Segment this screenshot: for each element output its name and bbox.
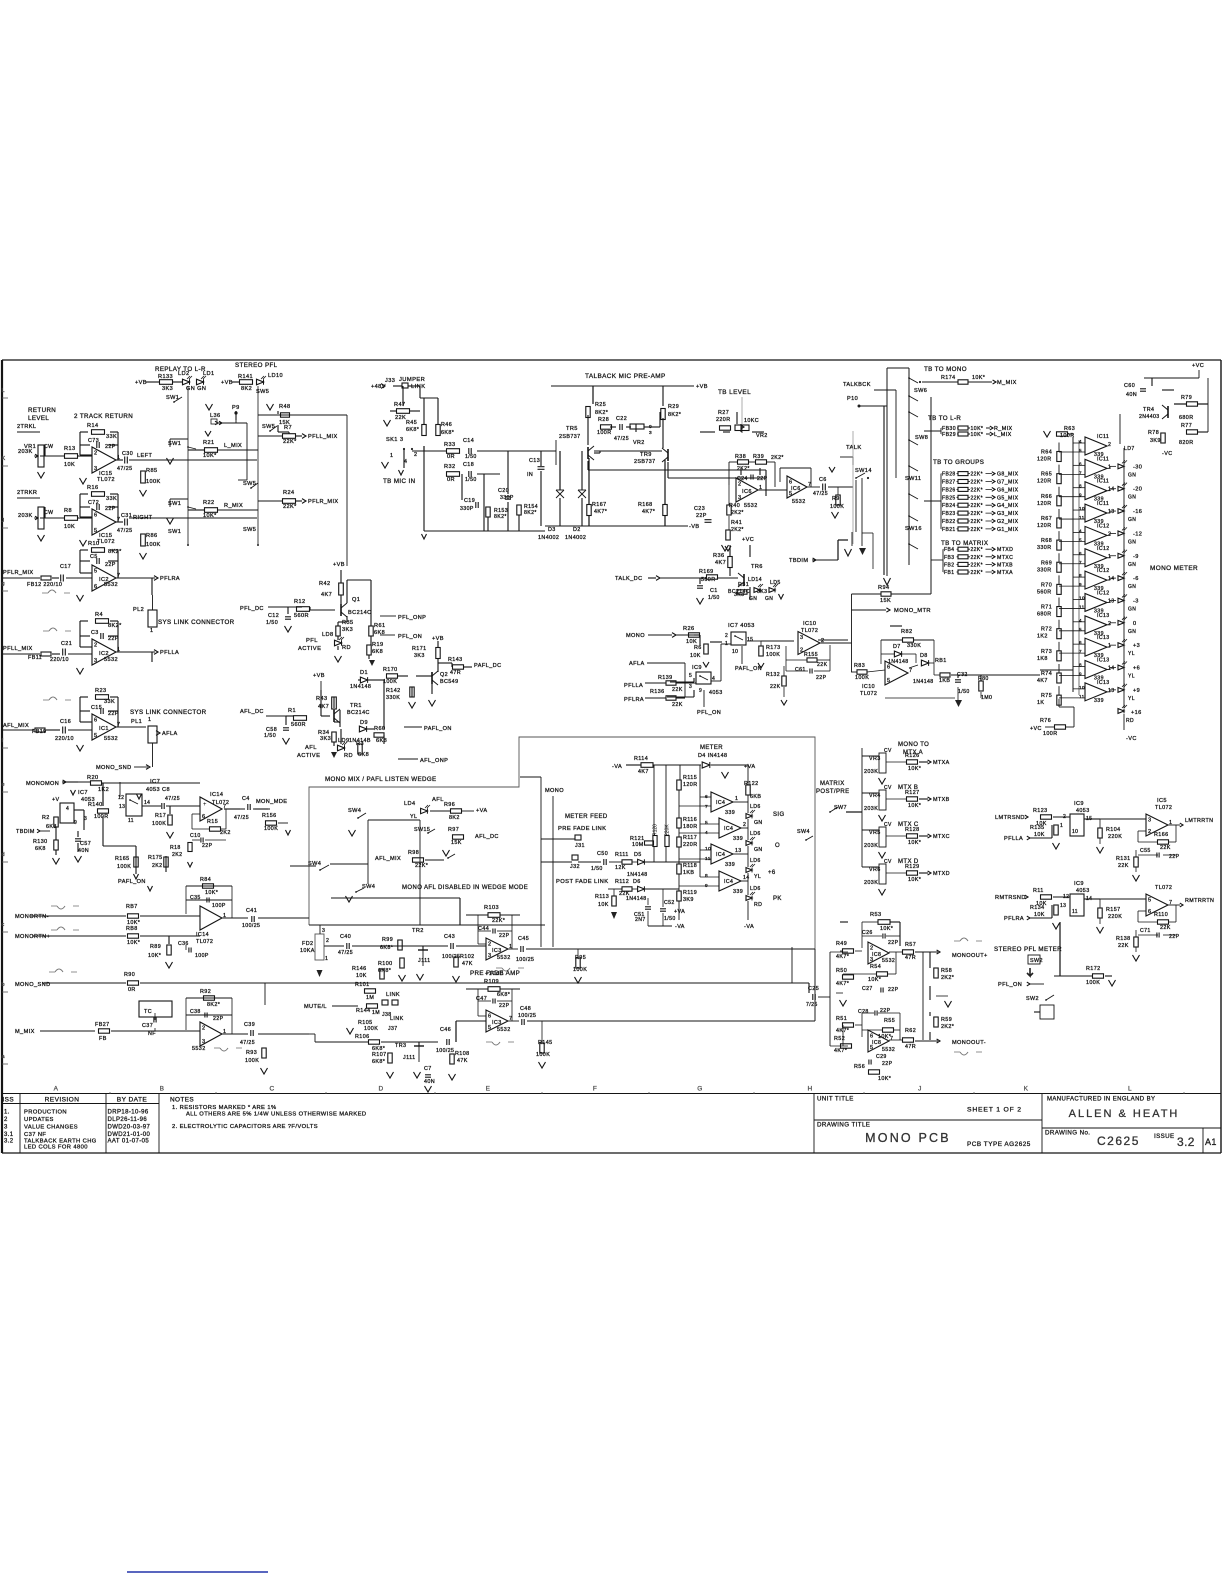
svg-text:R6: R6 bbox=[694, 645, 702, 651]
svg-text:100K: 100K bbox=[117, 864, 131, 870]
svg-text:40N: 40N bbox=[1126, 392, 1137, 398]
svg-text:2K2: 2K2 bbox=[152, 863, 162, 869]
svg-text:+VC: +VC bbox=[1030, 726, 1042, 732]
svg-text:R103: R103 bbox=[484, 905, 499, 911]
svg-text:8K2*: 8K2* bbox=[595, 410, 609, 416]
svg-text:C26: C26 bbox=[862, 930, 873, 936]
svg-text:D7: D7 bbox=[893, 644, 901, 650]
svg-text:R172: R172 bbox=[1086, 966, 1101, 972]
svg-text:R85: R85 bbox=[146, 468, 157, 474]
svg-text:2: 2 bbox=[94, 643, 97, 649]
svg-text:22K*: 22K* bbox=[971, 527, 983, 533]
svg-text:2: 2 bbox=[738, 482, 741, 488]
svg-text:MONO: MONO bbox=[626, 633, 645, 639]
svg-text:120R: 120R bbox=[1037, 479, 1052, 485]
svg-text:MONO AFL DISABLED IN WEDGE MOD: MONO AFL DISABLED IN WEDGE MODE bbox=[402, 885, 528, 891]
svg-text:R138: R138 bbox=[1116, 936, 1131, 942]
svg-text:IC12: IC12 bbox=[1097, 523, 1110, 529]
svg-text:5: 5 bbox=[94, 733, 97, 739]
svg-text:C37 NF: C37 NF bbox=[24, 1132, 46, 1138]
svg-text:13: 13 bbox=[1060, 903, 1066, 909]
svg-text:15K: 15K bbox=[451, 840, 462, 846]
svg-text:C60: C60 bbox=[1124, 383, 1135, 389]
svg-text:M_MIX: M_MIX bbox=[997, 380, 1017, 386]
svg-text:R174: R174 bbox=[941, 375, 956, 381]
svg-text:R36: R36 bbox=[713, 553, 724, 559]
svg-text:F: F bbox=[593, 1086, 597, 1093]
svg-text:22K: 22K bbox=[395, 415, 406, 421]
svg-text:1/50: 1/50 bbox=[958, 689, 970, 695]
svg-text:47R: 47R bbox=[905, 955, 916, 961]
svg-text:47/25: 47/25 bbox=[338, 950, 353, 956]
svg-text:6KB: 6KB bbox=[750, 794, 761, 800]
svg-text:10K*: 10K* bbox=[908, 803, 922, 809]
svg-text:R38: R38 bbox=[735, 454, 746, 460]
svg-text:C12: C12 bbox=[268, 613, 279, 619]
svg-text:13: 13 bbox=[1108, 688, 1115, 694]
svg-text:10M: 10M bbox=[632, 842, 644, 848]
svg-text:R104: R104 bbox=[1106, 827, 1121, 833]
svg-text:100K: 100K bbox=[1086, 980, 1100, 986]
svg-text:6K8: 6K8 bbox=[35, 846, 46, 852]
svg-text:R8: R8 bbox=[64, 508, 72, 514]
svg-text:R166: R166 bbox=[1154, 832, 1169, 838]
svg-text:ISS: ISS bbox=[3, 1097, 15, 1104]
svg-text:6K8: 6K8 bbox=[358, 752, 369, 758]
svg-text:C13: C13 bbox=[529, 458, 540, 464]
svg-text:R173: R173 bbox=[766, 645, 781, 651]
svg-text:RETURN: RETURN bbox=[28, 407, 56, 414]
svg-text:R157: R157 bbox=[1106, 907, 1121, 913]
svg-text:4K7: 4K7 bbox=[638, 769, 649, 775]
svg-text:FB24: FB24 bbox=[942, 503, 956, 509]
svg-text:MTXA: MTXA bbox=[997, 570, 1013, 576]
svg-text:1: 1 bbox=[735, 796, 738, 802]
svg-text:10: 10 bbox=[732, 649, 738, 655]
svg-text:22P: 22P bbox=[696, 513, 707, 519]
svg-text:FD2: FD2 bbox=[302, 941, 313, 947]
svg-text:C6: C6 bbox=[819, 477, 827, 483]
svg-text:L: L bbox=[1128, 1086, 1132, 1093]
svg-text:AFL: AFL bbox=[432, 797, 444, 803]
svg-text:2: 2 bbox=[870, 946, 873, 952]
svg-text:R139: R139 bbox=[658, 675, 673, 681]
svg-text:GN: GN bbox=[1128, 562, 1136, 568]
svg-text:R92: R92 bbox=[200, 989, 211, 995]
svg-text:+6: +6 bbox=[1133, 666, 1140, 672]
svg-text:G1_MIX: G1_MIX bbox=[997, 527, 1019, 533]
svg-text:13: 13 bbox=[1108, 598, 1115, 604]
svg-text:J111: J111 bbox=[403, 1055, 416, 1061]
svg-text:22K: 22K bbox=[1118, 943, 1129, 949]
svg-text:STEREO PFL METER: STEREO PFL METER bbox=[994, 946, 1062, 953]
svg-text:Q1: Q1 bbox=[352, 597, 360, 603]
svg-text:4: 4 bbox=[66, 806, 69, 812]
svg-text:22P: 22P bbox=[499, 1003, 510, 1009]
svg-text:IC7: IC7 bbox=[78, 790, 88, 796]
svg-text:G6_MIX: G6_MIX bbox=[997, 487, 1019, 493]
svg-text:2TRKR: 2TRKR bbox=[17, 490, 37, 496]
svg-text:5532: 5532 bbox=[792, 499, 806, 505]
svg-text:10K: 10K bbox=[598, 902, 609, 908]
svg-text:LD6: LD6 bbox=[750, 804, 761, 810]
svg-text:FB22: FB22 bbox=[942, 519, 956, 525]
svg-text:12K: 12K bbox=[615, 865, 626, 871]
svg-text:22P: 22P bbox=[499, 933, 510, 939]
svg-text:1M: 1M bbox=[372, 1010, 380, 1016]
svg-text:K: K bbox=[1024, 1086, 1029, 1093]
svg-text:1.: 1. bbox=[4, 1110, 10, 1116]
svg-text:3K3: 3K3 bbox=[320, 736, 331, 742]
svg-text:22K*: 22K* bbox=[971, 480, 983, 486]
svg-text:TB TO GROUPS: TB TO GROUPS bbox=[933, 459, 984, 466]
svg-text:+6: +6 bbox=[768, 870, 776, 876]
svg-text:3K9: 3K9 bbox=[683, 897, 694, 903]
svg-text:560R: 560R bbox=[291, 722, 306, 728]
svg-text:R52: R52 bbox=[834, 1036, 845, 1042]
svg-text:3: 3 bbox=[94, 466, 97, 472]
svg-text:15: 15 bbox=[747, 637, 753, 643]
svg-text:22K: 22K bbox=[672, 687, 683, 693]
svg-text:R167: R167 bbox=[592, 502, 607, 508]
svg-text:PAFL_DC: PAFL_DC bbox=[474, 663, 502, 669]
svg-text:6: 6 bbox=[870, 1034, 873, 1040]
svg-text:MTXD: MTXD bbox=[997, 547, 1013, 553]
svg-text:R27: R27 bbox=[718, 410, 729, 416]
svg-text:3.2: 3.2 bbox=[1177, 1135, 1195, 1149]
svg-text:GN: GN bbox=[1128, 539, 1136, 545]
svg-text:LED COLS FOR 4800: LED COLS FOR 4800 bbox=[24, 1145, 88, 1151]
svg-text:203K: 203K bbox=[18, 513, 33, 519]
svg-text:R146: R146 bbox=[352, 966, 367, 972]
svg-text:R74: R74 bbox=[1041, 671, 1052, 677]
svg-text:5532: 5532 bbox=[104, 736, 118, 742]
svg-text:1M: 1M bbox=[366, 995, 374, 1001]
svg-text:PFLLA: PFLLA bbox=[624, 683, 643, 689]
svg-text:R75: R75 bbox=[1041, 693, 1052, 699]
svg-text:3: 3 bbox=[202, 1039, 205, 1045]
svg-text:22K: 22K bbox=[817, 662, 828, 668]
svg-text:A1: A1 bbox=[1205, 1137, 1217, 1147]
svg-text:b: b bbox=[2, 982, 5, 988]
svg-text:220K: 220K bbox=[1108, 914, 1122, 920]
svg-text:AFL_ONP: AFL_ONP bbox=[420, 758, 448, 764]
svg-text:R41: R41 bbox=[731, 520, 742, 526]
svg-text:R143: R143 bbox=[448, 657, 463, 663]
svg-text:SW14: SW14 bbox=[855, 468, 872, 474]
svg-text:R35: R35 bbox=[342, 620, 353, 626]
svg-text:VR2: VR2 bbox=[633, 440, 645, 446]
svg-text:IC14: IC14 bbox=[196, 932, 209, 938]
svg-text:DRAWING TITLE: DRAWING TITLE bbox=[817, 1122, 870, 1129]
svg-text:1/50: 1/50 bbox=[708, 595, 720, 601]
svg-text:IC11: IC11 bbox=[1097, 479, 1109, 485]
svg-text:C57: C57 bbox=[80, 841, 91, 847]
svg-text:9: 9 bbox=[699, 688, 702, 694]
svg-text:-12: -12 bbox=[1133, 531, 1142, 537]
svg-text:3: 3 bbox=[488, 953, 491, 959]
svg-text:+VB: +VB bbox=[696, 384, 708, 390]
svg-text:6: 6 bbox=[94, 584, 97, 590]
svg-text:C46: C46 bbox=[440, 1027, 451, 1033]
svg-text:RD: RD bbox=[754, 902, 762, 908]
svg-text:DRP18-10-96: DRP18-10-96 bbox=[108, 1110, 149, 1116]
svg-text:2: 2 bbox=[800, 648, 803, 654]
svg-text:220R: 220R bbox=[683, 842, 698, 848]
svg-text:LD8: LD8 bbox=[322, 632, 333, 638]
svg-text:2: 2 bbox=[202, 1026, 205, 1032]
svg-text:O: O bbox=[775, 843, 780, 849]
svg-text:IC12: IC12 bbox=[1097, 590, 1110, 596]
svg-text:YL: YL bbox=[754, 874, 761, 880]
svg-text:R25: R25 bbox=[595, 402, 606, 408]
svg-text:SK1: SK1 bbox=[386, 437, 398, 443]
svg-text:R71: R71 bbox=[1041, 605, 1052, 611]
svg-text:G: G bbox=[697, 1086, 702, 1093]
svg-text:R69: R69 bbox=[1041, 560, 1052, 566]
svg-text:3: 3 bbox=[738, 495, 741, 501]
svg-text:6: 6 bbox=[202, 814, 205, 820]
svg-text:RD: RD bbox=[344, 753, 353, 759]
svg-text:1/50: 1/50 bbox=[264, 733, 276, 739]
svg-text:14: 14 bbox=[1108, 666, 1115, 672]
svg-text:LD6: LD6 bbox=[750, 831, 761, 837]
svg-text:FB4: FB4 bbox=[944, 547, 954, 553]
svg-text:IC9: IC9 bbox=[1074, 801, 1084, 807]
svg-text:1/50: 1/50 bbox=[465, 477, 477, 483]
svg-text:SW2: SW2 bbox=[1026, 996, 1039, 1002]
svg-text:C: C bbox=[269, 1086, 274, 1093]
svg-text:PFLR_MIX: PFLR_MIX bbox=[3, 570, 34, 576]
svg-text:10K: 10K bbox=[64, 524, 75, 530]
svg-text:6K8: 6K8 bbox=[46, 824, 57, 830]
svg-text:3: 3 bbox=[4, 1125, 8, 1131]
svg-text:22K: 22K bbox=[672, 702, 683, 708]
svg-text:R93: R93 bbox=[246, 1050, 257, 1056]
svg-text:TL072: TL072 bbox=[860, 691, 877, 697]
svg-text:40N: 40N bbox=[424, 1079, 435, 1085]
svg-text:MON_MDE: MON_MDE bbox=[256, 799, 287, 805]
svg-text:FB12 220/10: FB12 220/10 bbox=[27, 582, 62, 588]
svg-text:6K8*: 6K8* bbox=[380, 945, 394, 951]
svg-text:D: D bbox=[378, 1086, 383, 1093]
svg-text:SW4: SW4 bbox=[797, 829, 810, 835]
svg-text:TR2: TR2 bbox=[412, 928, 424, 934]
svg-text:SYS LINK CONNECTOR: SYS LINK CONNECTOR bbox=[158, 619, 235, 626]
svg-text:2: 2 bbox=[743, 822, 746, 828]
svg-text:R89: R89 bbox=[150, 944, 161, 950]
svg-text:e: e bbox=[2, 782, 5, 788]
svg-text:3K9: 3K9 bbox=[1150, 438, 1161, 444]
svg-text:R141: R141 bbox=[238, 374, 253, 380]
svg-text:RD: RD bbox=[342, 645, 351, 651]
svg-text:10K*: 10K* bbox=[203, 513, 217, 519]
svg-text:5532: 5532 bbox=[497, 955, 511, 961]
svg-text:C22: C22 bbox=[616, 416, 627, 422]
svg-text:C52: C52 bbox=[664, 900, 675, 906]
svg-text:100K: 100K bbox=[766, 652, 780, 658]
svg-text:R10: R10 bbox=[88, 541, 99, 547]
svg-text:2K2*: 2K2* bbox=[731, 510, 744, 516]
svg-text:R56: R56 bbox=[854, 1064, 865, 1070]
svg-text:R165: R165 bbox=[115, 856, 130, 862]
svg-text:R129: R129 bbox=[905, 864, 920, 870]
svg-text:H: H bbox=[807, 1086, 812, 1093]
svg-text:47/25: 47/25 bbox=[240, 1040, 255, 1046]
svg-text:L: L bbox=[2, 388, 5, 394]
svg-text:4K7: 4K7 bbox=[1037, 678, 1048, 684]
svg-text:MONO MIX / PAFL LISTEN WEDGE: MONO MIX / PAFL LISTEN WEDGE bbox=[325, 776, 437, 783]
svg-text:C7: C7 bbox=[424, 1066, 432, 1072]
svg-text:FB23: FB23 bbox=[942, 511, 956, 517]
svg-text:33K: 33K bbox=[104, 699, 115, 705]
svg-text:C48: C48 bbox=[520, 1006, 531, 1012]
svg-text:D6: D6 bbox=[633, 879, 641, 885]
svg-text:10K*: 10K* bbox=[127, 940, 141, 946]
svg-text:a: a bbox=[2, 1054, 6, 1060]
svg-text:M_MIX: M_MIX bbox=[15, 1029, 35, 1035]
svg-text:220/10: 220/10 bbox=[55, 736, 74, 742]
svg-text:C4: C4 bbox=[242, 796, 250, 802]
svg-text:+VA: +VA bbox=[476, 808, 488, 814]
svg-text:PFLL_MIX: PFLL_MIX bbox=[3, 646, 33, 652]
svg-text:R120: R120 bbox=[653, 824, 659, 836]
svg-text:R169: R169 bbox=[699, 569, 714, 575]
svg-text:5532: 5532 bbox=[192, 1046, 206, 1052]
svg-text:1: 1 bbox=[148, 717, 151, 723]
svg-text:1N4148: 1N4148 bbox=[626, 896, 647, 902]
svg-text:C50: C50 bbox=[597, 851, 608, 857]
svg-text:C23: C23 bbox=[694, 506, 705, 512]
svg-text:IC11: IC11 bbox=[1097, 501, 1109, 507]
svg-text:100R: 100R bbox=[94, 814, 109, 820]
svg-text:R109: R109 bbox=[484, 979, 499, 985]
svg-text:203K: 203K bbox=[864, 843, 878, 849]
svg-text:1/50: 1/50 bbox=[266, 620, 278, 626]
svg-text:R140: R140 bbox=[88, 802, 103, 808]
svg-text:22K*: 22K* bbox=[971, 547, 983, 553]
svg-text:4K7*: 4K7* bbox=[834, 1048, 848, 1054]
svg-text:10K*: 10K* bbox=[868, 977, 882, 983]
svg-text:8K2*: 8K2* bbox=[108, 623, 122, 629]
svg-text:R96: R96 bbox=[444, 802, 455, 808]
svg-text:IC9: IC9 bbox=[1074, 881, 1084, 887]
svg-text:MTXB: MTXB bbox=[997, 562, 1013, 568]
svg-text:IC13: IC13 bbox=[1097, 613, 1110, 619]
svg-text:R118: R118 bbox=[683, 863, 697, 869]
svg-text:GN: GN bbox=[1128, 472, 1136, 478]
svg-text:1N4002: 1N4002 bbox=[538, 535, 559, 541]
svg-text:SW11: SW11 bbox=[905, 476, 921, 482]
svg-text:47/25: 47/25 bbox=[117, 466, 133, 472]
svg-text:3: 3 bbox=[800, 635, 803, 641]
svg-text:R42: R42 bbox=[319, 581, 330, 587]
svg-text:100R: 100R bbox=[1043, 731, 1058, 737]
svg-text:R130: R130 bbox=[33, 839, 48, 845]
svg-text:TB MIC IN: TB MIC IN bbox=[383, 478, 415, 485]
svg-text:10K*: 10K* bbox=[205, 890, 219, 896]
svg-text:+VB: +VB bbox=[135, 380, 147, 386]
svg-text:0R: 0R bbox=[128, 987, 136, 993]
svg-text:R170: R170 bbox=[383, 667, 398, 673]
svg-text:22P: 22P bbox=[888, 940, 899, 946]
svg-text:+9: +9 bbox=[1133, 688, 1140, 694]
svg-text:CV: CV bbox=[884, 822, 892, 828]
svg-text:R127: R127 bbox=[905, 790, 920, 796]
svg-text:-6: -6 bbox=[1133, 576, 1139, 582]
svg-text:4K7*: 4K7* bbox=[642, 509, 656, 515]
svg-text:3: 3 bbox=[689, 684, 692, 690]
svg-text:R28: R28 bbox=[598, 417, 609, 423]
svg-text:1N4002: 1N4002 bbox=[565, 535, 586, 541]
svg-text:14: 14 bbox=[1108, 487, 1115, 493]
svg-text:14: 14 bbox=[743, 875, 750, 881]
svg-text:DWD21-01-00: DWD21-01-00 bbox=[108, 1132, 151, 1138]
svg-text:4K7*: 4K7* bbox=[836, 981, 850, 987]
svg-text:R7: R7 bbox=[284, 425, 292, 431]
svg-text:R50: R50 bbox=[836, 968, 847, 974]
svg-text:TBDIM: TBDIM bbox=[16, 829, 35, 835]
svg-text:+3: +3 bbox=[1133, 643, 1140, 649]
svg-text:6K8: 6K8 bbox=[372, 649, 383, 655]
svg-text:FB2: FB2 bbox=[944, 562, 954, 568]
svg-text:IC4: IC4 bbox=[724, 826, 733, 832]
svg-text:4053: 4053 bbox=[1076, 888, 1090, 894]
svg-text:C27: C27 bbox=[862, 986, 873, 992]
svg-text:R128: R128 bbox=[905, 827, 920, 833]
svg-text:1KB: 1KB bbox=[683, 870, 694, 876]
svg-text:120R: 120R bbox=[1037, 501, 1052, 507]
svg-text:330R: 330R bbox=[1037, 567, 1052, 573]
svg-text:10: 10 bbox=[705, 846, 711, 852]
svg-text:R90: R90 bbox=[124, 972, 135, 978]
svg-text:22P: 22P bbox=[816, 675, 827, 681]
svg-text:10KC: 10KC bbox=[744, 418, 759, 424]
svg-text:MTXC: MTXC bbox=[997, 555, 1013, 561]
svg-text:FB27: FB27 bbox=[95, 1022, 109, 1028]
svg-text:PFLL_MIX: PFLL_MIX bbox=[308, 434, 338, 440]
svg-text:40N: 40N bbox=[78, 848, 89, 854]
svg-text:MONOOUT-: MONOOUT- bbox=[952, 1040, 986, 1046]
svg-text:CV: CV bbox=[884, 859, 892, 865]
svg-text:IC10: IC10 bbox=[862, 684, 875, 690]
svg-text:5: 5 bbox=[887, 678, 890, 684]
svg-text:R73: R73 bbox=[1041, 649, 1052, 655]
svg-text:R12: R12 bbox=[294, 599, 305, 605]
svg-text:1/50: 1/50 bbox=[465, 454, 477, 460]
svg-text:6K8*: 6K8* bbox=[441, 430, 455, 436]
svg-text:R23: R23 bbox=[95, 688, 106, 694]
svg-text:C61: C61 bbox=[795, 667, 806, 673]
svg-text:IC7: IC7 bbox=[150, 779, 160, 785]
svg-text:R156: R156 bbox=[262, 813, 277, 819]
svg-text:ISSUE: ISSUE bbox=[1154, 1133, 1175, 1140]
svg-text:LEFT: LEFT bbox=[137, 453, 152, 459]
svg-text:TB TO MATRIX: TB TO MATRIX bbox=[941, 540, 988, 547]
svg-text:3K3: 3K3 bbox=[162, 386, 173, 392]
svg-text:R62: R62 bbox=[905, 1028, 916, 1034]
svg-text:10K*: 10K* bbox=[203, 453, 217, 459]
svg-text:R76: R76 bbox=[1040, 718, 1051, 724]
svg-text:B: B bbox=[160, 1086, 165, 1093]
svg-text:TL072: TL072 bbox=[97, 539, 115, 545]
svg-text:3.2: 3.2 bbox=[4, 1139, 14, 1145]
svg-text:22K*: 22K* bbox=[971, 472, 983, 478]
svg-text:MONO_SND: MONO_SND bbox=[96, 765, 132, 771]
svg-text:R132: R132 bbox=[766, 672, 780, 678]
svg-text:GN: GN bbox=[754, 847, 763, 853]
svg-text:TR1: TR1 bbox=[350, 703, 362, 709]
